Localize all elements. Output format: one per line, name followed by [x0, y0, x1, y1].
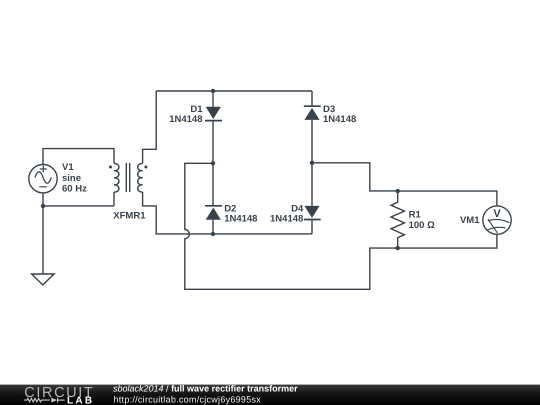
- svg-text:LAB: LAB: [67, 395, 94, 405]
- svg-text:http://circuitlab.com/cjcwj6y6: http://circuitlab.com/cjcwj6y6995sx: [114, 395, 262, 405]
- svg-text:1N4148: 1N4148: [224, 213, 257, 224]
- svg-text:VM1: VM1: [460, 215, 480, 226]
- svg-text:1N4148: 1N4148: [270, 213, 303, 224]
- svg-text:R1: R1: [409, 209, 422, 220]
- svg-text:1N4148: 1N4148: [169, 114, 202, 125]
- svg-text:V: V: [493, 208, 501, 220]
- svg-text:60 Hz: 60 Hz: [62, 184, 87, 195]
- svg-text:sbolack2014 / full wave rectif: sbolack2014 / full wave rectifier transf…: [113, 384, 298, 394]
- svg-text:sine: sine: [62, 173, 81, 184]
- svg-text:V1: V1: [62, 162, 74, 173]
- svg-text:100 Ω: 100 Ω: [409, 220, 435, 231]
- svg-text:1N4148: 1N4148: [323, 114, 356, 125]
- svg-text:XFMR1: XFMR1: [113, 210, 146, 221]
